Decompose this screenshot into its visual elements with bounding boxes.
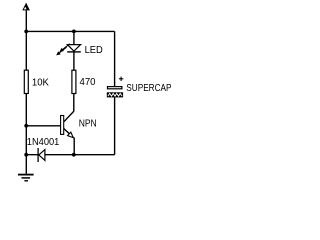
svg-text:NPN: NPN bbox=[79, 119, 97, 130]
svg-text:10K: 10K bbox=[32, 78, 49, 89]
svg-text:1N4001: 1N4001 bbox=[27, 137, 60, 148]
svg-text:470: 470 bbox=[80, 77, 96, 88]
svg-text:LED: LED bbox=[85, 45, 103, 56]
svg-text:SUPERCAP: SUPERCAP bbox=[126, 83, 171, 94]
